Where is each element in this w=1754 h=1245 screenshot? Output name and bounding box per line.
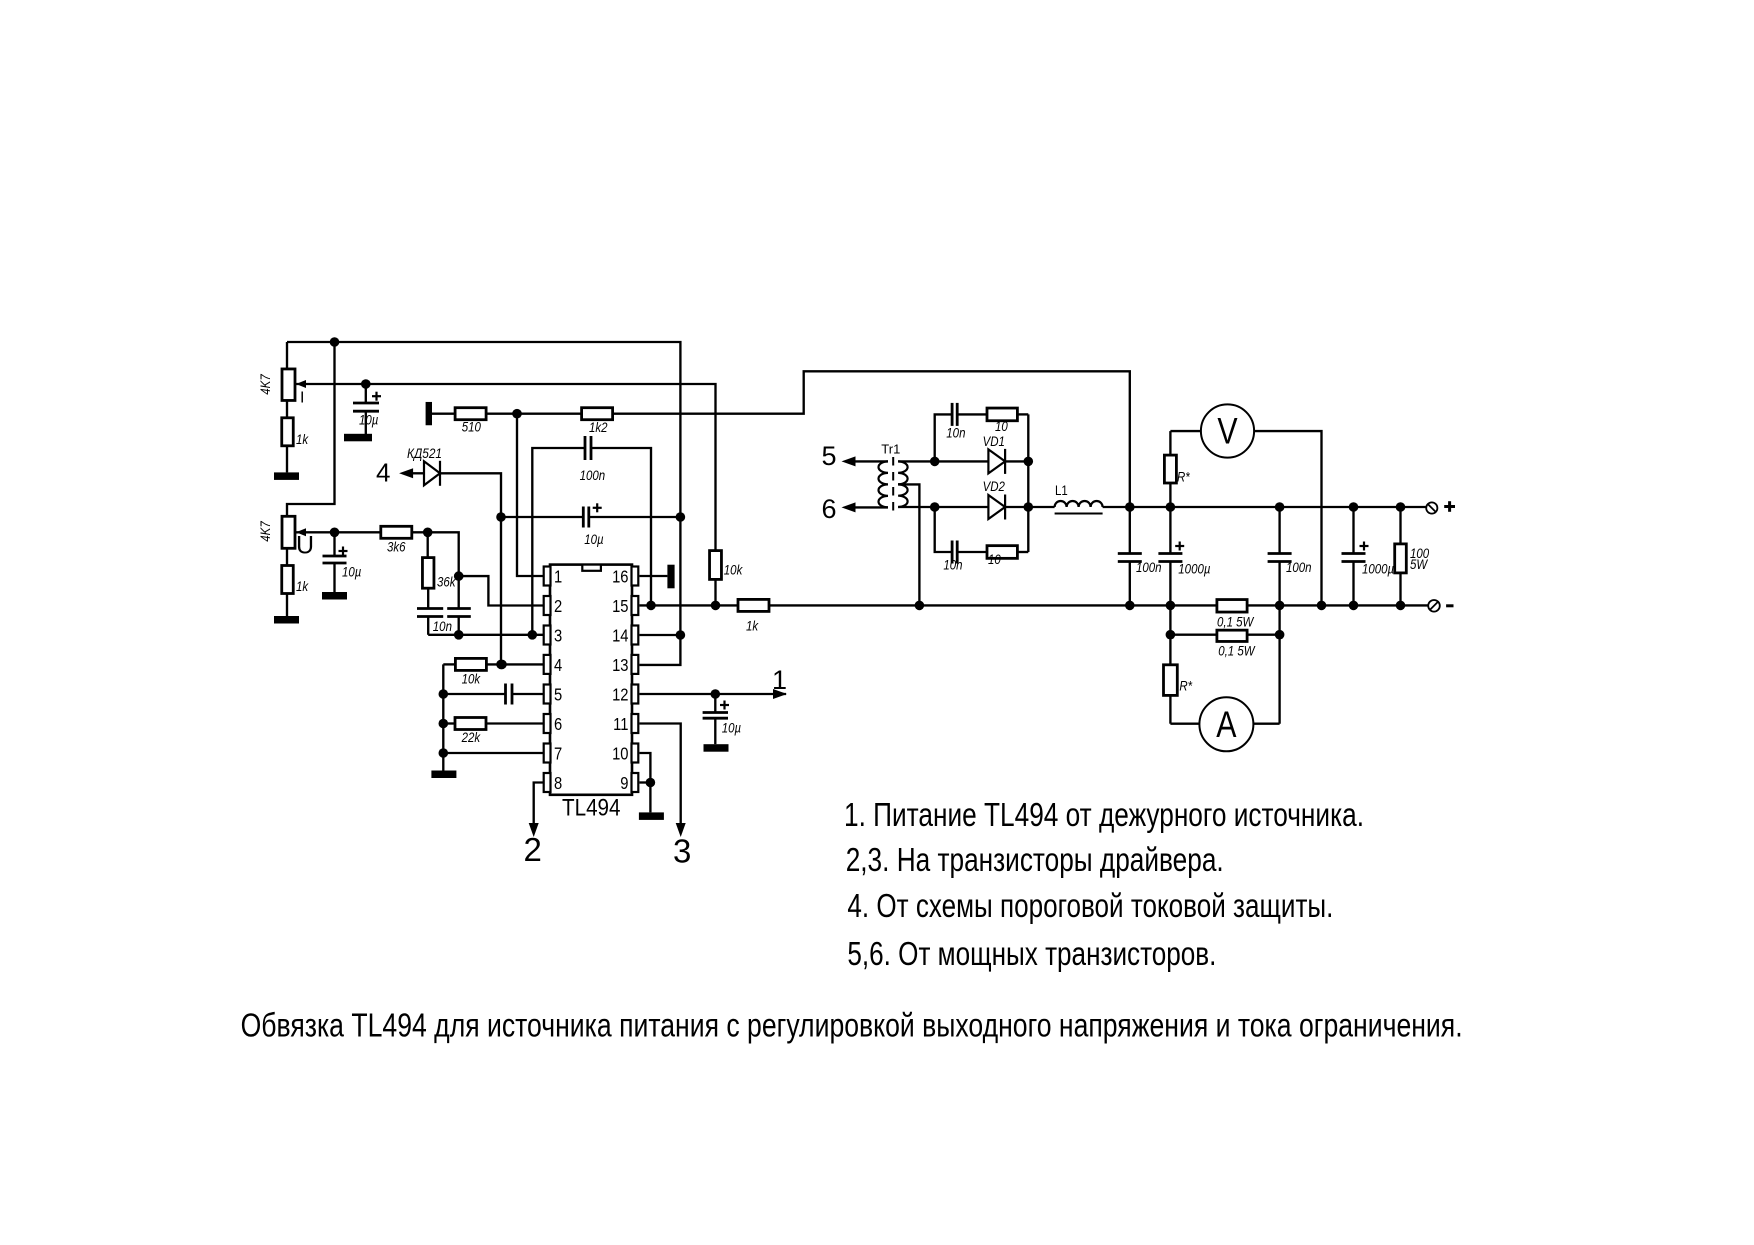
svg-text:1: 1 — [554, 567, 562, 587]
svg-text:10n: 10n — [943, 556, 962, 572]
svg-text:1k2: 1k2 — [589, 419, 608, 435]
svg-text:100n: 100n — [1136, 559, 1162, 575]
svg-text:I: I — [300, 390, 304, 407]
svg-text:13: 13 — [612, 656, 628, 676]
svg-text:3k6: 3k6 — [387, 538, 406, 554]
svg-text:TL494: TL494 — [562, 795, 621, 822]
svg-text:2,3. На транзисторы драйвера.: 2,3. На транзисторы драйвера. — [846, 841, 1224, 878]
svg-text:Обвязка TL494 для источника пи: Обвязка TL494 для источника питания с ре… — [241, 1007, 1463, 1044]
svg-text:V: V — [1217, 411, 1238, 453]
svg-text:1. Питание TL494 от дежурного: 1. Питание TL494 от дежурного источника. — [844, 796, 1364, 833]
svg-text:5: 5 — [554, 685, 562, 705]
svg-text:4. От схемы пороговой токовой: 4. От схемы пороговой токовой защиты. — [847, 887, 1333, 924]
svg-text:2: 2 — [554, 597, 562, 617]
svg-text:16: 16 — [612, 567, 628, 587]
svg-text:1000µ: 1000µ — [1362, 560, 1394, 576]
svg-text:A: A — [1216, 704, 1237, 746]
svg-text:8: 8 — [554, 774, 562, 794]
svg-text:6: 6 — [822, 494, 837, 524]
svg-text:12: 12 — [612, 685, 628, 705]
svg-text:10: 10 — [988, 551, 1002, 567]
svg-text:R*: R* — [1179, 677, 1193, 693]
svg-text:4: 4 — [554, 656, 562, 676]
svg-text:1k: 1k — [296, 578, 309, 594]
svg-text:10µ: 10µ — [359, 411, 378, 427]
svg-text:10: 10 — [612, 744, 628, 764]
svg-text:1: 1 — [772, 665, 787, 695]
svg-text:0,1 5W: 0,1 5W — [1217, 613, 1255, 629]
svg-text:7: 7 — [554, 744, 562, 764]
svg-text:3: 3 — [673, 832, 691, 869]
svg-text:4: 4 — [376, 458, 390, 488]
svg-text:10n: 10n — [946, 424, 965, 440]
svg-text:0,1 5W: 0,1 5W — [1218, 642, 1256, 658]
svg-text:10k: 10k — [462, 670, 481, 686]
svg-text:5: 5 — [822, 441, 837, 471]
svg-text:100n: 100n — [1286, 559, 1312, 575]
svg-text:2: 2 — [524, 831, 542, 868]
svg-text:22k: 22k — [461, 729, 481, 745]
svg-text:10k: 10k — [724, 561, 743, 577]
svg-text:4K7: 4K7 — [257, 521, 273, 542]
svg-text:5W: 5W — [1410, 556, 1429, 572]
svg-text:1k: 1k — [746, 617, 759, 633]
svg-text:VD2: VD2 — [983, 478, 1005, 494]
svg-text:10µ: 10µ — [584, 531, 603, 547]
svg-text:Tr1: Tr1 — [881, 441, 900, 456]
svg-text:100n: 100n — [580, 467, 606, 483]
svg-text:10µ: 10µ — [722, 719, 741, 735]
svg-text:5,6. От мощных транзисторов.: 5,6. От мощных транзисторов. — [847, 935, 1216, 972]
svg-text:9: 9 — [620, 774, 628, 794]
svg-text:3: 3 — [554, 626, 562, 646]
svg-text:14: 14 — [612, 626, 628, 646]
svg-text:510: 510 — [462, 419, 482, 435]
svg-text:36k: 36k — [437, 573, 456, 589]
svg-text:11: 11 — [613, 715, 628, 735]
svg-text:4K7: 4K7 — [257, 374, 273, 395]
svg-text:15: 15 — [612, 597, 628, 617]
svg-text:1000µ: 1000µ — [1178, 560, 1210, 576]
svg-text:КД521: КД521 — [407, 445, 442, 461]
svg-text:6: 6 — [554, 715, 562, 735]
svg-text:10: 10 — [995, 418, 1009, 434]
svg-text:R*: R* — [1177, 469, 1191, 485]
svg-text:10µ: 10µ — [342, 563, 361, 579]
svg-text:VD1: VD1 — [983, 433, 1005, 449]
svg-text:1k: 1k — [296, 431, 309, 447]
svg-text:L1: L1 — [1055, 482, 1068, 498]
svg-text:10n: 10n — [433, 618, 452, 634]
svg-text:U: U — [296, 532, 314, 560]
